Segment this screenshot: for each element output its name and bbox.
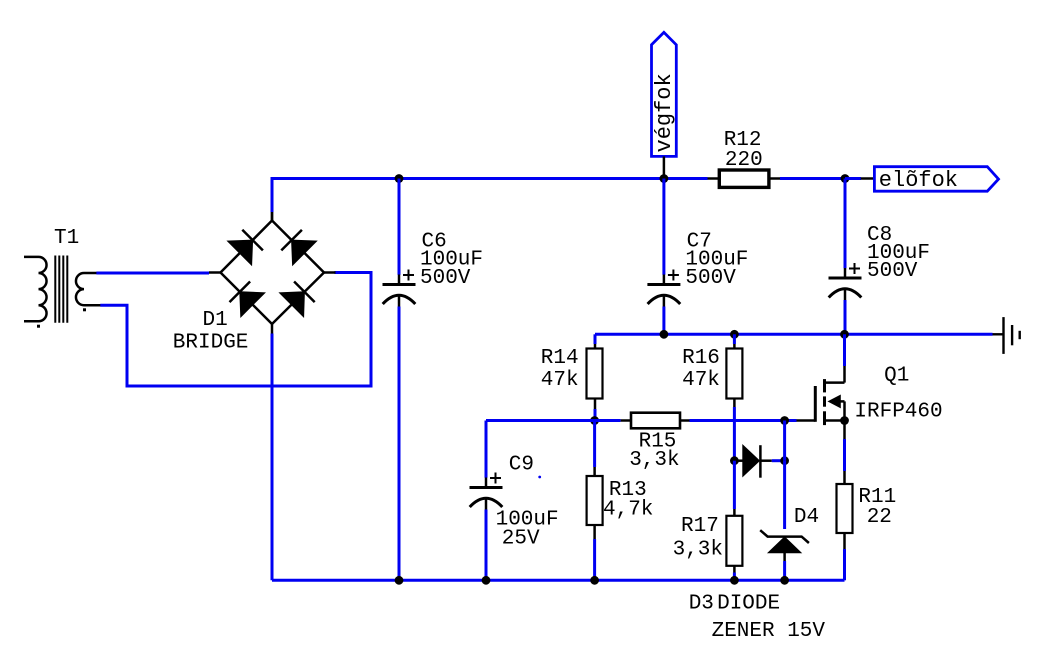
node R16 mid-rail junction dot xyxy=(730,330,739,339)
node C9 bottom junction dot xyxy=(482,576,491,585)
resistor R11 body xyxy=(837,484,853,533)
diode D3 cathode stub xyxy=(760,459,771,462)
resistor R14 bottom stub xyxy=(594,399,597,410)
wire bridge top riser xyxy=(271,179,274,213)
bridge D1 left pin stub xyxy=(209,271,221,274)
resistor R12 pin stubs xyxy=(708,177,720,180)
wire D4 anode to bottom rail xyxy=(783,561,786,580)
svg-text:DIODE: DIODE xyxy=(717,592,780,615)
wire C9 lower xyxy=(485,510,488,581)
svg-text:3,3k: 3,3k xyxy=(673,539,723,562)
node D4 bottom junction dot xyxy=(780,576,789,585)
wire gate net left section xyxy=(486,419,621,422)
bridge D1 diamond outline xyxy=(221,221,325,325)
wire C8 lower xyxy=(844,300,847,334)
bridge D1 diode upper-left (anode L, cathode T) xyxy=(228,240,253,265)
wire secondary top to bridge left xyxy=(96,272,209,275)
wire Q1 drain to mid rail xyxy=(843,334,846,366)
zener D4 cathode bent bar xyxy=(760,530,809,543)
svg-text:C9: C9 xyxy=(509,454,534,477)
resistor R17 body xyxy=(726,516,742,566)
transformer T1 secondary winding xyxy=(76,273,101,305)
transistor Q1 gate pin xyxy=(797,419,816,422)
wire D3 cathode down to D4 xyxy=(783,461,786,529)
diode D3 anode stub xyxy=(734,459,742,462)
wire secondary bottom to bridge right xyxy=(100,273,371,387)
bridge D1 diode lower-right (anode B, cathode R) xyxy=(280,292,305,317)
wire mid rail to R14 xyxy=(594,334,597,344)
svg-text:BRIDGE: BRIDGE xyxy=(173,331,249,354)
bridge D1 top pin stub xyxy=(271,207,274,221)
node C6 top junction dot xyxy=(395,174,404,183)
transformer T1 primary polarity dot xyxy=(37,325,40,328)
node C6 bottom junction dot xyxy=(395,576,404,585)
svg-text:R16: R16 xyxy=(682,347,720,370)
svg-text:D4: D4 xyxy=(794,506,819,529)
wire bottom rail xyxy=(272,579,845,582)
wire C7 lower xyxy=(662,307,665,335)
wire C6 upper xyxy=(398,179,401,275)
svg-text:500V: 500V xyxy=(420,267,471,290)
transistor Q1 channel dashes xyxy=(823,379,826,392)
node C8/Q1 mid-rail junction dot xyxy=(840,330,849,339)
node D3 cathode junction dot xyxy=(780,456,789,465)
capacitor C7 symbol xyxy=(663,275,666,285)
transistor Q1 source lead xyxy=(825,419,845,422)
svg-text:500V: 500V xyxy=(685,267,736,290)
wire C8 upper xyxy=(844,179,847,269)
svg-text:végfok: végfok xyxy=(652,73,677,152)
node R14/R13/R15 junction dot xyxy=(590,416,599,425)
transformer T1 primary winding xyxy=(24,257,47,321)
capacitor C9 symbol xyxy=(485,478,488,488)
resistor R13 body xyxy=(587,476,603,525)
resistor R12 body xyxy=(719,170,769,187)
svg-text:500V: 500V xyxy=(867,260,918,283)
wire D3 cathode to D4 branch xyxy=(772,459,785,462)
wire vegfok stub xyxy=(663,156,666,178)
wire C6 lower xyxy=(398,307,401,581)
resistor R11 bottom stub xyxy=(843,533,846,549)
svg-text:elõfok: elõfok xyxy=(879,168,958,193)
wire D3 anode down to R17 xyxy=(733,461,736,509)
capacitor C6 symbol xyxy=(398,275,401,285)
wire gate dot to D3 dot xyxy=(783,421,786,461)
resistor R15 pin stubs xyxy=(621,419,631,422)
resistor R16 bottom stub xyxy=(733,399,736,408)
bridge D1 diode lower-left (anode B, cathode L) xyxy=(240,292,265,317)
resistor R14 body xyxy=(587,349,603,399)
node R17 bottom junction dot xyxy=(730,576,739,585)
node D3 anode junction dot xyxy=(730,456,739,465)
port flag vegfok outline xyxy=(652,32,677,156)
svg-text:22: 22 xyxy=(867,506,892,529)
bridge D1 bottom pin stub xyxy=(271,324,274,334)
wire Q1 source to R11 xyxy=(843,439,846,471)
transformer T1 core xyxy=(54,256,56,323)
transistor Q1 body-source link xyxy=(843,401,846,420)
transformer T1 secondary polarity dot xyxy=(83,308,86,311)
bridge D1 right pin stub xyxy=(324,271,336,274)
wire mid rail to R16 xyxy=(733,334,736,344)
wire C7 upper xyxy=(662,179,665,275)
svg-text:T1: T1 xyxy=(54,227,79,250)
svg-text:4,7k: 4,7k xyxy=(603,499,653,522)
node vegfok/C7 junction dot xyxy=(660,174,669,183)
resistor R16 body xyxy=(726,349,742,399)
node gate/D4 junction dot xyxy=(780,416,789,425)
zener D4 anode stub xyxy=(783,553,786,561)
resistor R17 bottom stub xyxy=(733,566,736,573)
wire gate net to R13 xyxy=(593,421,596,468)
wire gate net right section xyxy=(690,419,797,422)
resistor R13 bottom stub xyxy=(593,525,596,539)
wire mid rail xyxy=(595,333,993,336)
wire gate net to C9 riser xyxy=(485,421,488,478)
svg-text:25V: 25V xyxy=(502,528,540,551)
wire elofok stub xyxy=(845,177,861,180)
transistor Q1 gate bar xyxy=(814,386,817,422)
resistor R15 body xyxy=(631,413,680,429)
svg-text:220: 220 xyxy=(725,149,763,172)
node Q1 source junction dot xyxy=(840,416,849,425)
svg-text:Q1: Q1 xyxy=(884,364,909,387)
svg-text:47k: 47k xyxy=(541,369,579,392)
svg-text:47k: 47k xyxy=(682,369,720,392)
bridge D1 diode upper-right (anode R, cathode T) xyxy=(292,240,317,265)
svg-text:ZENER 15V: ZENER 15V xyxy=(712,620,826,643)
svg-text:R17: R17 xyxy=(681,515,719,538)
wire top rail left section xyxy=(271,177,708,180)
wire top rail right section xyxy=(780,177,861,180)
ground symbol xyxy=(993,333,1004,335)
capacitor C8 symbol xyxy=(844,268,847,278)
diode D3 triangle xyxy=(743,445,760,476)
stray mark xyxy=(538,476,541,479)
port flag elofok outline xyxy=(874,167,998,192)
wire bridge bottom drop xyxy=(271,334,274,581)
node R13 bottom junction dot xyxy=(590,576,599,585)
transistor Q1 body arrow xyxy=(829,395,841,407)
node C7 mid-rail junction dot xyxy=(660,330,669,339)
svg-text:D1: D1 xyxy=(203,309,228,332)
transistor Q1 drain lead xyxy=(825,381,845,384)
svg-text:3,3k: 3,3k xyxy=(629,449,679,472)
diode D3 cathode bar xyxy=(759,445,762,478)
svg-text:IRFP460: IRFP460 xyxy=(854,400,942,423)
node elofok junction dot xyxy=(841,174,850,183)
svg-text:R14: R14 xyxy=(541,347,579,370)
zener D4 triangle xyxy=(768,537,801,553)
svg-text:D3: D3 xyxy=(689,592,714,615)
